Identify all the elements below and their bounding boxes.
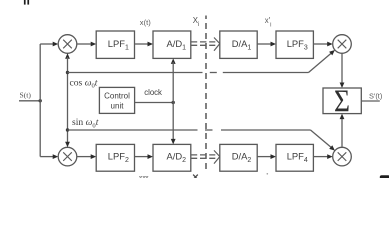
svg-text:S(t): S(t)	[20, 91, 32, 100]
wire input trunk vertical	[39, 44, 41, 157]
junction clock node	[172, 101, 175, 104]
wire M3 to summer	[340, 53, 345, 88]
wire sin line	[68, 129, 311, 131]
svg-text:S′(t): S′(t)	[369, 91, 382, 100]
wire clock vertical to A/D1 and A/D2	[171, 58, 176, 144]
block control unit	[99, 87, 134, 113]
junction sin node	[66, 128, 69, 131]
wire D/A1 to LPF3	[257, 42, 276, 47]
junction cos node	[66, 71, 69, 74]
block LPF2	[96, 144, 134, 171]
block D/A1	[220, 31, 257, 58]
wire carrier vertical M1-M2	[65, 53, 70, 147]
stray mark	[267, 173, 269, 175]
wire to multiplier M2	[40, 154, 58, 159]
wire clock horizontal	[135, 102, 174, 104]
wire D/A2 to LPF4	[257, 154, 276, 159]
block LPF1	[96, 31, 134, 58]
wire LPF1 to A/D1	[135, 42, 154, 47]
block A/D2	[153, 144, 191, 171]
cut-off text fragment bottom X	[193, 175, 198, 180]
svg-text:x(t): x(t)	[140, 18, 151, 27]
wire S(t) input	[19, 100, 40, 102]
wire LPF2 to A/D2	[135, 154, 154, 159]
block LPF4	[276, 144, 313, 171]
svg-text:clock: clock	[144, 88, 162, 97]
svg-text:unit: unit	[111, 101, 125, 110]
block D/A2	[220, 144, 257, 171]
bus A/D1 to D/A1	[191, 38, 220, 51]
wire sin diagonal to M4	[311, 130, 335, 151]
multiplier M1	[58, 35, 77, 54]
wire LPF3 to M3	[313, 42, 332, 47]
svg-text:Control: Control	[104, 91, 130, 100]
block A/D1	[153, 31, 191, 58]
boundary dashed line	[205, 16, 207, 174]
cut-off text fragment bottom omega marks	[140, 176, 149, 177]
wire to multiplier M1	[40, 42, 58, 47]
cut-off text fragment top-left	[24, 0, 29, 5]
multiplier M3	[333, 35, 352, 54]
wire cos diagonal to M3	[309, 50, 335, 73]
cut-off text fragment bottom-right blob	[380, 175, 389, 179]
svg-text:Σ: Σ	[334, 85, 350, 119]
bus A/D2 to D/A2	[191, 150, 220, 163]
wire M1 to LPF1	[77, 42, 96, 47]
wire LPF4 to M4	[313, 154, 332, 159]
multiplier M4	[333, 147, 352, 166]
wire M4 to summer	[340, 114, 345, 148]
summer block sigma	[323, 85, 361, 119]
wire cos line	[68, 72, 309, 74]
wire M2 to LPF2	[77, 154, 96, 159]
block LPF3	[276, 31, 313, 58]
wire summer output	[361, 100, 380, 102]
junction input node	[39, 99, 42, 102]
multiplier M2	[58, 147, 77, 166]
